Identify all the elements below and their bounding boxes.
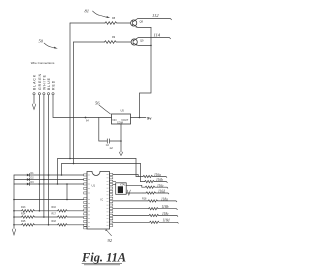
svg-text:R18: R18 [52,220,57,223]
svg-text:92: 92 [108,238,113,243]
svg-text:R13: R13 [21,206,26,209]
svg-text:D3: D3 [31,181,35,184]
svg-text:WHITE: WHITE [42,74,46,90]
svg-text:VIN: VIN [112,119,116,122]
svg-text:BLUE: BLUE [47,77,51,90]
svg-text:118d: 118d [163,219,170,223]
svg-text:D2: D2 [31,176,35,179]
svg-text:XTAL: XTAL [120,183,126,186]
svg-text:64: 64 [86,119,89,122]
svg-text:R15: R15 [21,220,26,223]
svg-text:116a: 116a [154,173,161,177]
svg-text:50: 50 [39,39,44,44]
svg-text:Q9: Q9 [140,39,144,43]
svg-text:R14: R14 [21,212,26,215]
svg-text:118c: 118c [162,212,169,216]
svg-text:R9: R9 [112,36,116,39]
svg-text:56: 56 [95,101,100,106]
svg-text:116c: 116c [157,184,164,188]
svg-text:118b: 118b [162,205,169,209]
svg-text:81: 81 [85,9,90,14]
svg-text:116d: 116d [158,190,165,194]
svg-text:112: 112 [152,13,159,18]
svg-text:Q8: Q8 [140,20,144,24]
svg-text:R8: R8 [112,17,116,20]
svg-text:BLACK: BLACK [32,74,36,90]
svg-text:D1: D1 [31,172,35,175]
svg-text:COM: COM [117,122,123,125]
svg-text:GREEN: GREEN [38,73,42,90]
svg-text:118a: 118a [161,197,168,201]
svg-text:9v: 9v [147,115,152,120]
svg-text:114: 114 [154,33,161,38]
svg-text:Wire Connections: Wire Connections [31,61,55,65]
svg-text:U5: U5 [121,109,125,113]
svg-text:R18: R18 [142,197,147,200]
svg-text:.1uf: .1uf [109,147,113,150]
svg-text:U1: U1 [92,184,96,188]
svg-text:IC: IC [101,198,104,202]
svg-text:RED: RED [51,80,55,90]
svg-text:R16: R16 [52,206,57,209]
svg-text:R17: R17 [52,212,57,215]
svg-text:Fig. 11A: Fig. 11A [81,251,126,265]
svg-text:116b: 116b [156,178,163,182]
